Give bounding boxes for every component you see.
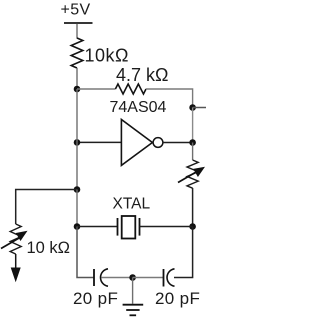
wire R1 to node A [76,68,78,89]
wire node H to ground [132,278,134,304]
wire left rail node to U1 input [77,141,121,143]
op-amp U1 inverter triangle [121,120,152,166]
U1 output bubble [153,138,163,148]
svg-text:4.7 kΩ: 4.7 kΩ [116,65,168,85]
capacitor C1 curved plate [101,269,108,286]
wire U1 output to node C [163,142,193,144]
+5V rail bar [64,22,93,24]
svg-text:74AS04: 74AS04 [110,99,167,116]
wire node F to R4 corner [16,190,77,225]
node A junction dot [74,86,81,93]
wire node C to R3 [192,143,194,161]
svg-text:XTAL: XTAL [113,196,151,213]
wire node H to C2 [133,277,164,279]
wire node F down to node G [76,190,78,227]
wire Y1 to node E [140,226,193,228]
ground [123,305,144,316]
crystal Y1 body box [122,216,136,239]
node C junction dot [189,139,196,146]
node D junction dot (U1 input) [74,139,81,146]
wire rail to R1 [76,24,78,39]
node H junction dot (ground) [129,274,136,281]
resistor R1 10k zigzag [71,38,83,68]
svg-text:10kΩ: 10kΩ [85,46,129,66]
node B junction dot (output stub) [189,104,196,111]
svg-text:+5V: +5V [61,2,91,19]
potentiometer R4 zigzag [10,224,21,254]
node F junction dot (to R4) [74,186,81,193]
crystal Y1 left plate [117,218,119,236]
svg-text:20 pF: 20 pF [73,289,118,308]
node E junction dot [189,223,196,230]
R4 arrow [1,231,28,249]
wire node E down to C2 corner [174,227,193,278]
resistor R2 4.7k zigzag [115,84,146,94]
crystal Y1 right plate [139,218,141,236]
wire C1 to node H [102,277,133,279]
wire node B down to node C [192,108,194,143]
wire output stub to edge [193,107,206,109]
wire node G down to bottom corner [77,227,94,278]
node G junction dot (XTAL left) [74,223,81,230]
negative supply down arrow [11,268,21,283]
wire node G to Y1 [77,226,118,228]
wire R4 to down arrow [15,254,17,270]
capacitor C1 flat plate [93,269,95,286]
capacitor C2 curved plate [167,269,174,286]
svg-text:10 kΩ: 10 kΩ [27,239,71,257]
wire R3 to node E [192,188,194,227]
wire node A to R2 [77,88,115,90]
trimmer R3 zigzag [187,160,198,188]
wire R2 to right rail corner [146,89,193,108]
wire node D down to node F [76,142,78,189]
wire node A down to node D [76,89,78,142]
trimmer R3 arrow [178,167,205,183]
capacitor C2 flat plate [163,269,165,287]
svg-text:20 pF: 20 pF [155,289,200,308]
